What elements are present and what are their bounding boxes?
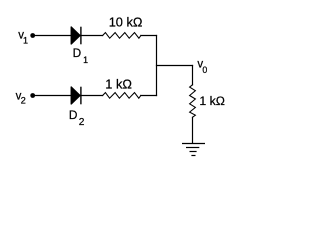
- wire v2 to D2 to R2: [35, 95, 103, 97]
- node v1 terminal dot: [30, 33, 35, 38]
- svg-text:0: 0: [202, 65, 207, 75]
- diode D1 cathode bar: [80, 27, 82, 45]
- ground top line: [182, 143, 205, 145]
- svg-text:1: 1: [23, 36, 28, 46]
- resistor R2 1 kOhm zigzag: [103, 93, 141, 99]
- diode D2 cathode bar: [80, 87, 82, 105]
- svg-text:10 kΩ: 10 kΩ: [109, 15, 143, 30]
- resistor R1 10 kOhm zigzag: [103, 33, 141, 39]
- ground bottom line: [191, 155, 195, 157]
- wire R1 to right corner: [141, 35, 157, 37]
- diode D2 triangle: [71, 87, 80, 104]
- diode D1 triangle: [71, 27, 80, 44]
- svg-text:1 kΩ: 1 kΩ: [105, 77, 132, 92]
- wire v0 corner down to RL: [192, 66, 194, 85]
- svg-text:2: 2: [79, 117, 85, 128]
- wire v1 to D1 to R1: [35, 35, 103, 37]
- wire right vertical bus: [156, 36, 158, 96]
- svg-text:1: 1: [83, 55, 88, 65]
- wire R2 to right vertical bus: [141, 95, 157, 97]
- wire output branch from bus to v0 corner: [157, 65, 193, 67]
- svg-text:1 kΩ: 1 kΩ: [199, 94, 225, 108]
- ground third line: [190, 151, 197, 153]
- wire RL to ground: [192, 117, 194, 143]
- ground second line: [186, 147, 199, 149]
- svg-text:2: 2: [21, 95, 26, 106]
- svg-text:D: D: [69, 108, 78, 122]
- node v2 terminal dot: [30, 93, 35, 98]
- svg-text:D: D: [73, 46, 82, 60]
- resistor RL 1 kOhm vertical zigzag: [190, 85, 196, 118]
